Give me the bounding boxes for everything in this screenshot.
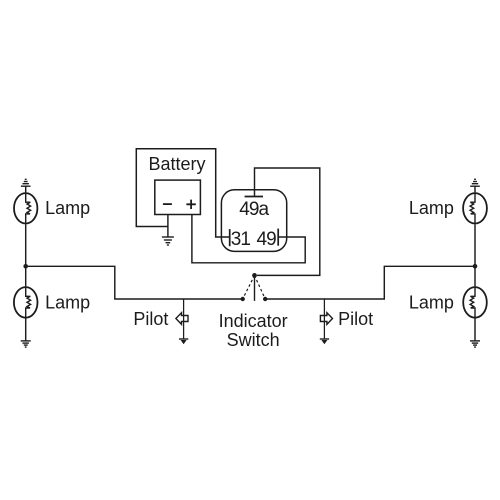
relay U1 (flasher unit, rounded body): [221, 190, 286, 252]
ground (battery negative): [162, 237, 174, 245]
svg-text:Lamp: Lamp: [409, 198, 454, 218]
pilot lamp (left, arrow pointing left): [176, 313, 188, 325]
wire (right pilot drop): [323, 299, 325, 339]
svg-text:Lamp: Lamp: [45, 198, 90, 218]
svg-text:Battery: Battery: [149, 154, 206, 174]
svg-text:Pilot: Pilot: [133, 309, 168, 329]
wire (battery negative down to ground): [167, 215, 169, 238]
lamp (upper right): [463, 193, 487, 224]
node (right lamps junction): [473, 264, 478, 269]
svg-text:Switch: Switch: [227, 330, 280, 350]
indicator switch SW1 (lever): [254, 278, 256, 301]
wire (upper-left lamp to node): [25, 224, 27, 286]
svg-text:49a: 49a: [239, 199, 269, 220]
lamp (upper left): [14, 193, 37, 224]
wire (top-right ground to lamp): [474, 186, 476, 192]
lamp (lower right): [463, 287, 487, 318]
node (left lamps junction): [23, 264, 28, 269]
wire (right lamps node to switch right contact): [267, 266, 475, 299]
wire (upper-right lamp to node): [474, 224, 476, 286]
indicator switch SW1 (dashed throw positions): [243, 275, 266, 299]
terminal 31 (tick): [229, 229, 231, 246]
terminal 49a (tick): [245, 196, 263, 198]
wire (top-left ground to lamp): [25, 186, 27, 192]
svg-text:Lamp: Lamp: [409, 293, 454, 313]
ground (left pilot, arrow style): [179, 339, 188, 344]
pilot lamp (right, arrow pointing right): [320, 313, 332, 325]
wire (lower-right lamp to ground): [474, 319, 476, 341]
svg-text:Pilot: Pilot: [338, 309, 373, 329]
ground (below lower-left lamp): [21, 341, 31, 347]
ground (above upper-left lamp, inverted): [21, 179, 31, 186]
label Indicator Switch: [219, 311, 288, 350]
battery B1 (inner cell box): [155, 180, 201, 214]
terminal 49 (tick): [277, 229, 279, 246]
svg-text:Indicator: Indicator: [219, 311, 288, 331]
wire (relay terminal 49a up, over and down to switch pivot): [255, 168, 320, 275]
wire (lower-left lamp to ground): [25, 319, 27, 341]
ground (below lower-right lamp): [470, 341, 480, 347]
ground (above upper-right lamp, inverted): [470, 179, 480, 186]
label battery negative -: [163, 203, 172, 205]
indicator switch SW1 (pivot node): [252, 273, 257, 278]
wire (left pilot drop): [183, 299, 185, 339]
label battery positive +: [186, 200, 195, 209]
battery B1 (outer box wire loop from terminal 31 to battery negative): [136, 149, 230, 237]
wire (left lamps node to switch left contact): [26, 266, 241, 299]
svg-text:31: 31: [231, 229, 251, 250]
wire (battery positive down then right and up to relay terminal 49): [192, 215, 305, 263]
node (switch right contact): [263, 297, 267, 301]
ground (right pilot, arrow style): [320, 339, 329, 344]
node (switch left contact): [241, 297, 245, 301]
svg-text:49: 49: [257, 229, 277, 250]
svg-text:Lamp: Lamp: [45, 293, 90, 313]
lamp (lower left): [14, 287, 38, 318]
